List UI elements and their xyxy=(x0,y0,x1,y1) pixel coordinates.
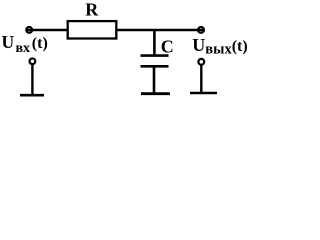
ground (below capacitor) xyxy=(141,92,170,95)
wire: junction node down to capacitor C xyxy=(153,30,156,56)
wire: resistor to output terminal xyxy=(117,29,205,32)
wire: input lower terminal to ground xyxy=(31,64,33,95)
input lower terminal (open circle) xyxy=(30,58,36,64)
label U_vyx(t) output voltage xyxy=(192,35,247,58)
ground (input side) xyxy=(20,94,44,97)
wire: input terminal to resistor R xyxy=(26,29,68,32)
input terminal (top-left open circle) xyxy=(26,27,32,33)
wire: capacitor to ground xyxy=(153,66,156,93)
svg-text:Uвых(t): Uвых(t) xyxy=(192,35,247,58)
wire: output lower terminal to ground xyxy=(200,65,202,93)
output terminal (top-right open circle) xyxy=(198,27,204,33)
label R xyxy=(85,0,99,20)
svg-text:R: R xyxy=(85,0,99,20)
capacitor C xyxy=(141,56,169,67)
label U_vx(t) input voltage xyxy=(2,32,48,56)
resistor R xyxy=(68,21,117,38)
ground (output side) xyxy=(190,92,217,95)
svg-text:Uвх(t): Uвх(t) xyxy=(2,32,48,56)
svg-text:C: C xyxy=(161,37,174,57)
output lower terminal (open circle) xyxy=(198,59,204,65)
label C xyxy=(161,37,174,57)
